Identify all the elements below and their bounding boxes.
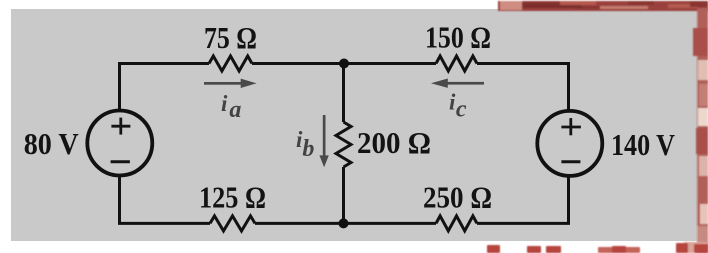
wire: top-right segment (150ohm to 140V source) (477, 64, 569, 111)
svg-text:140 V: 140 V (611, 127, 676, 162)
current arrow i_c (points left) (431, 79, 484, 88)
resistor R 250ohm (436, 216, 477, 231)
svg-text:80 V: 80 V (24, 126, 80, 161)
svg-text:150 Ω: 150 Ω (425, 20, 491, 55)
current arrow i_a (points right) (204, 79, 257, 88)
resistor R 125ohm (210, 216, 255, 231)
wire: top-left segment (80V source to 75ohm) (120, 64, 210, 111)
wire: top (node a to 150ohm) (344, 62, 436, 65)
V2 minus terminal (561, 160, 580, 163)
wire: bottom (node b to 250ohm) (344, 222, 437, 225)
resistor R 200ohm (336, 122, 351, 167)
red scan artifact: right band (693, 8, 708, 253)
voltage source V1 80V circle (87, 111, 152, 176)
V1 plus terminal (111, 118, 130, 135)
wire: bottom-right segment (250ohm to 140V source) (477, 176, 569, 223)
node b (bottom junction dot) (339, 218, 349, 228)
wire: top middle (75ohm to node a) (252, 62, 344, 65)
V1 minus terminal (111, 160, 130, 163)
node a (top junction dot) (339, 59, 349, 69)
resistor R 150ohm (436, 56, 477, 71)
wire: bottom middle (125ohm to node b) (255, 222, 344, 225)
wire: middle branch upper (342, 64, 345, 123)
red scan artifact: bottom-right cropped text (487, 242, 708, 253)
svg-text:200 Ω: 200 Ω (357, 125, 431, 160)
current arrow i_b (points down) (319, 115, 328, 167)
svg-text:125 Ω: 125 Ω (199, 180, 266, 215)
wire: bottom-left segment (80V source to 125ohm) (120, 176, 211, 224)
svg-text:250 Ω: 250 Ω (423, 180, 492, 215)
wire: middle branch lower (342, 167, 345, 223)
V2 plus terminal (561, 118, 581, 135)
red scan artifact: top band (498, 1, 708, 11)
voltage source V2 140V circle (537, 111, 602, 176)
svg-text:75 Ω: 75 Ω (204, 20, 257, 55)
resistor R 75ohm (209, 56, 252, 71)
